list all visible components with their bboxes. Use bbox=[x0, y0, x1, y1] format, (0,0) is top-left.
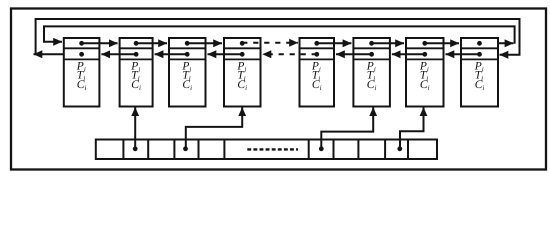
table slot pointer dot 1 bbox=[133, 146, 138, 151]
wire next pointer arrow N4 to N5 (dashed continuation) bbox=[242, 42, 298, 44]
node N8: list record box with next/prev pointer cells and P T C fields bbox=[461, 38, 498, 107]
wire head-prev wrap-around: node1 prev field out left with arrowhead at bend bbox=[34, 53, 82, 55]
border frame bbox=[11, 9, 546, 170]
wire next pointer arrow N1 to N2 bbox=[82, 42, 118, 44]
wire next pointer arrow N5 to N6 bbox=[317, 42, 352, 44]
node N1: list record box with next/prev pointer cells and P T C fields bbox=[64, 38, 100, 107]
wire prev pointer arrow N6 to N5 bbox=[336, 53, 372, 55]
hash table array at bottom bbox=[96, 140, 437, 160]
wire head-prev wrap-around: up left side, across top, down right side into node8 prev field bbox=[36, 19, 520, 55]
wire next pointer arrow N3 to N4 bbox=[187, 42, 222, 44]
node N7: list record box with next/prev pointer cells and P T C fields bbox=[406, 38, 444, 107]
wire prev pointer arrow N2 to N1 bbox=[101, 53, 136, 55]
node N6: list record box with next/prev pointer cells and P T C fields bbox=[353, 38, 390, 107]
wire prev pointer arrow N5 to N4 (dashed continuation) bbox=[263, 53, 317, 55]
wire arrow from table slot 2 up to node N2 bbox=[134, 107, 136, 148]
table slot pointer dot 2 bbox=[183, 146, 188, 151]
wire prev pointer arrow N8 to N7 bbox=[446, 53, 480, 55]
wire next pointer arrow N6 to N7 bbox=[372, 42, 404, 44]
wire arrow from table slot 10 up and right to node N7 bbox=[400, 107, 424, 148]
node N3: list record box with next/prev pointer cells and P T C fields bbox=[169, 38, 206, 107]
wire prev pointer arrow N3 to N2 bbox=[155, 53, 188, 55]
wire prev pointer arrow N7 to N6 bbox=[392, 53, 425, 55]
table slot pointer dot 3 bbox=[319, 146, 324, 151]
table slot pointer dot 4 bbox=[397, 146, 402, 151]
node N4: list record box with next/prev pointer cells and P T C fields bbox=[224, 38, 261, 107]
node N2: list record box with next/prev pointer cells and P T C fields bbox=[120, 38, 153, 107]
wire arrow from table slot 7 up and right to node N6 bbox=[321, 107, 373, 148]
wire tail-next wrap-around: node8 next field out right with arrowhead at bend bbox=[480, 42, 514, 44]
wire next pointer arrow N7 to N8 bbox=[425, 42, 459, 44]
node N5: list record box with next/prev pointer cells and P T C fields bbox=[300, 38, 335, 107]
dashed continuation marks inside wide middle cell of hash table bbox=[247, 148, 298, 150]
wire arrow from table slot 4 up and right to node N4 bbox=[186, 107, 242, 148]
wire prev pointer arrow N4 to N3 bbox=[208, 53, 243, 55]
wire tail-next wrap-around: up right side, across top, down left side into node1 next field bbox=[44, 26, 515, 43]
wire next pointer arrow N2 to N3 bbox=[136, 42, 167, 44]
